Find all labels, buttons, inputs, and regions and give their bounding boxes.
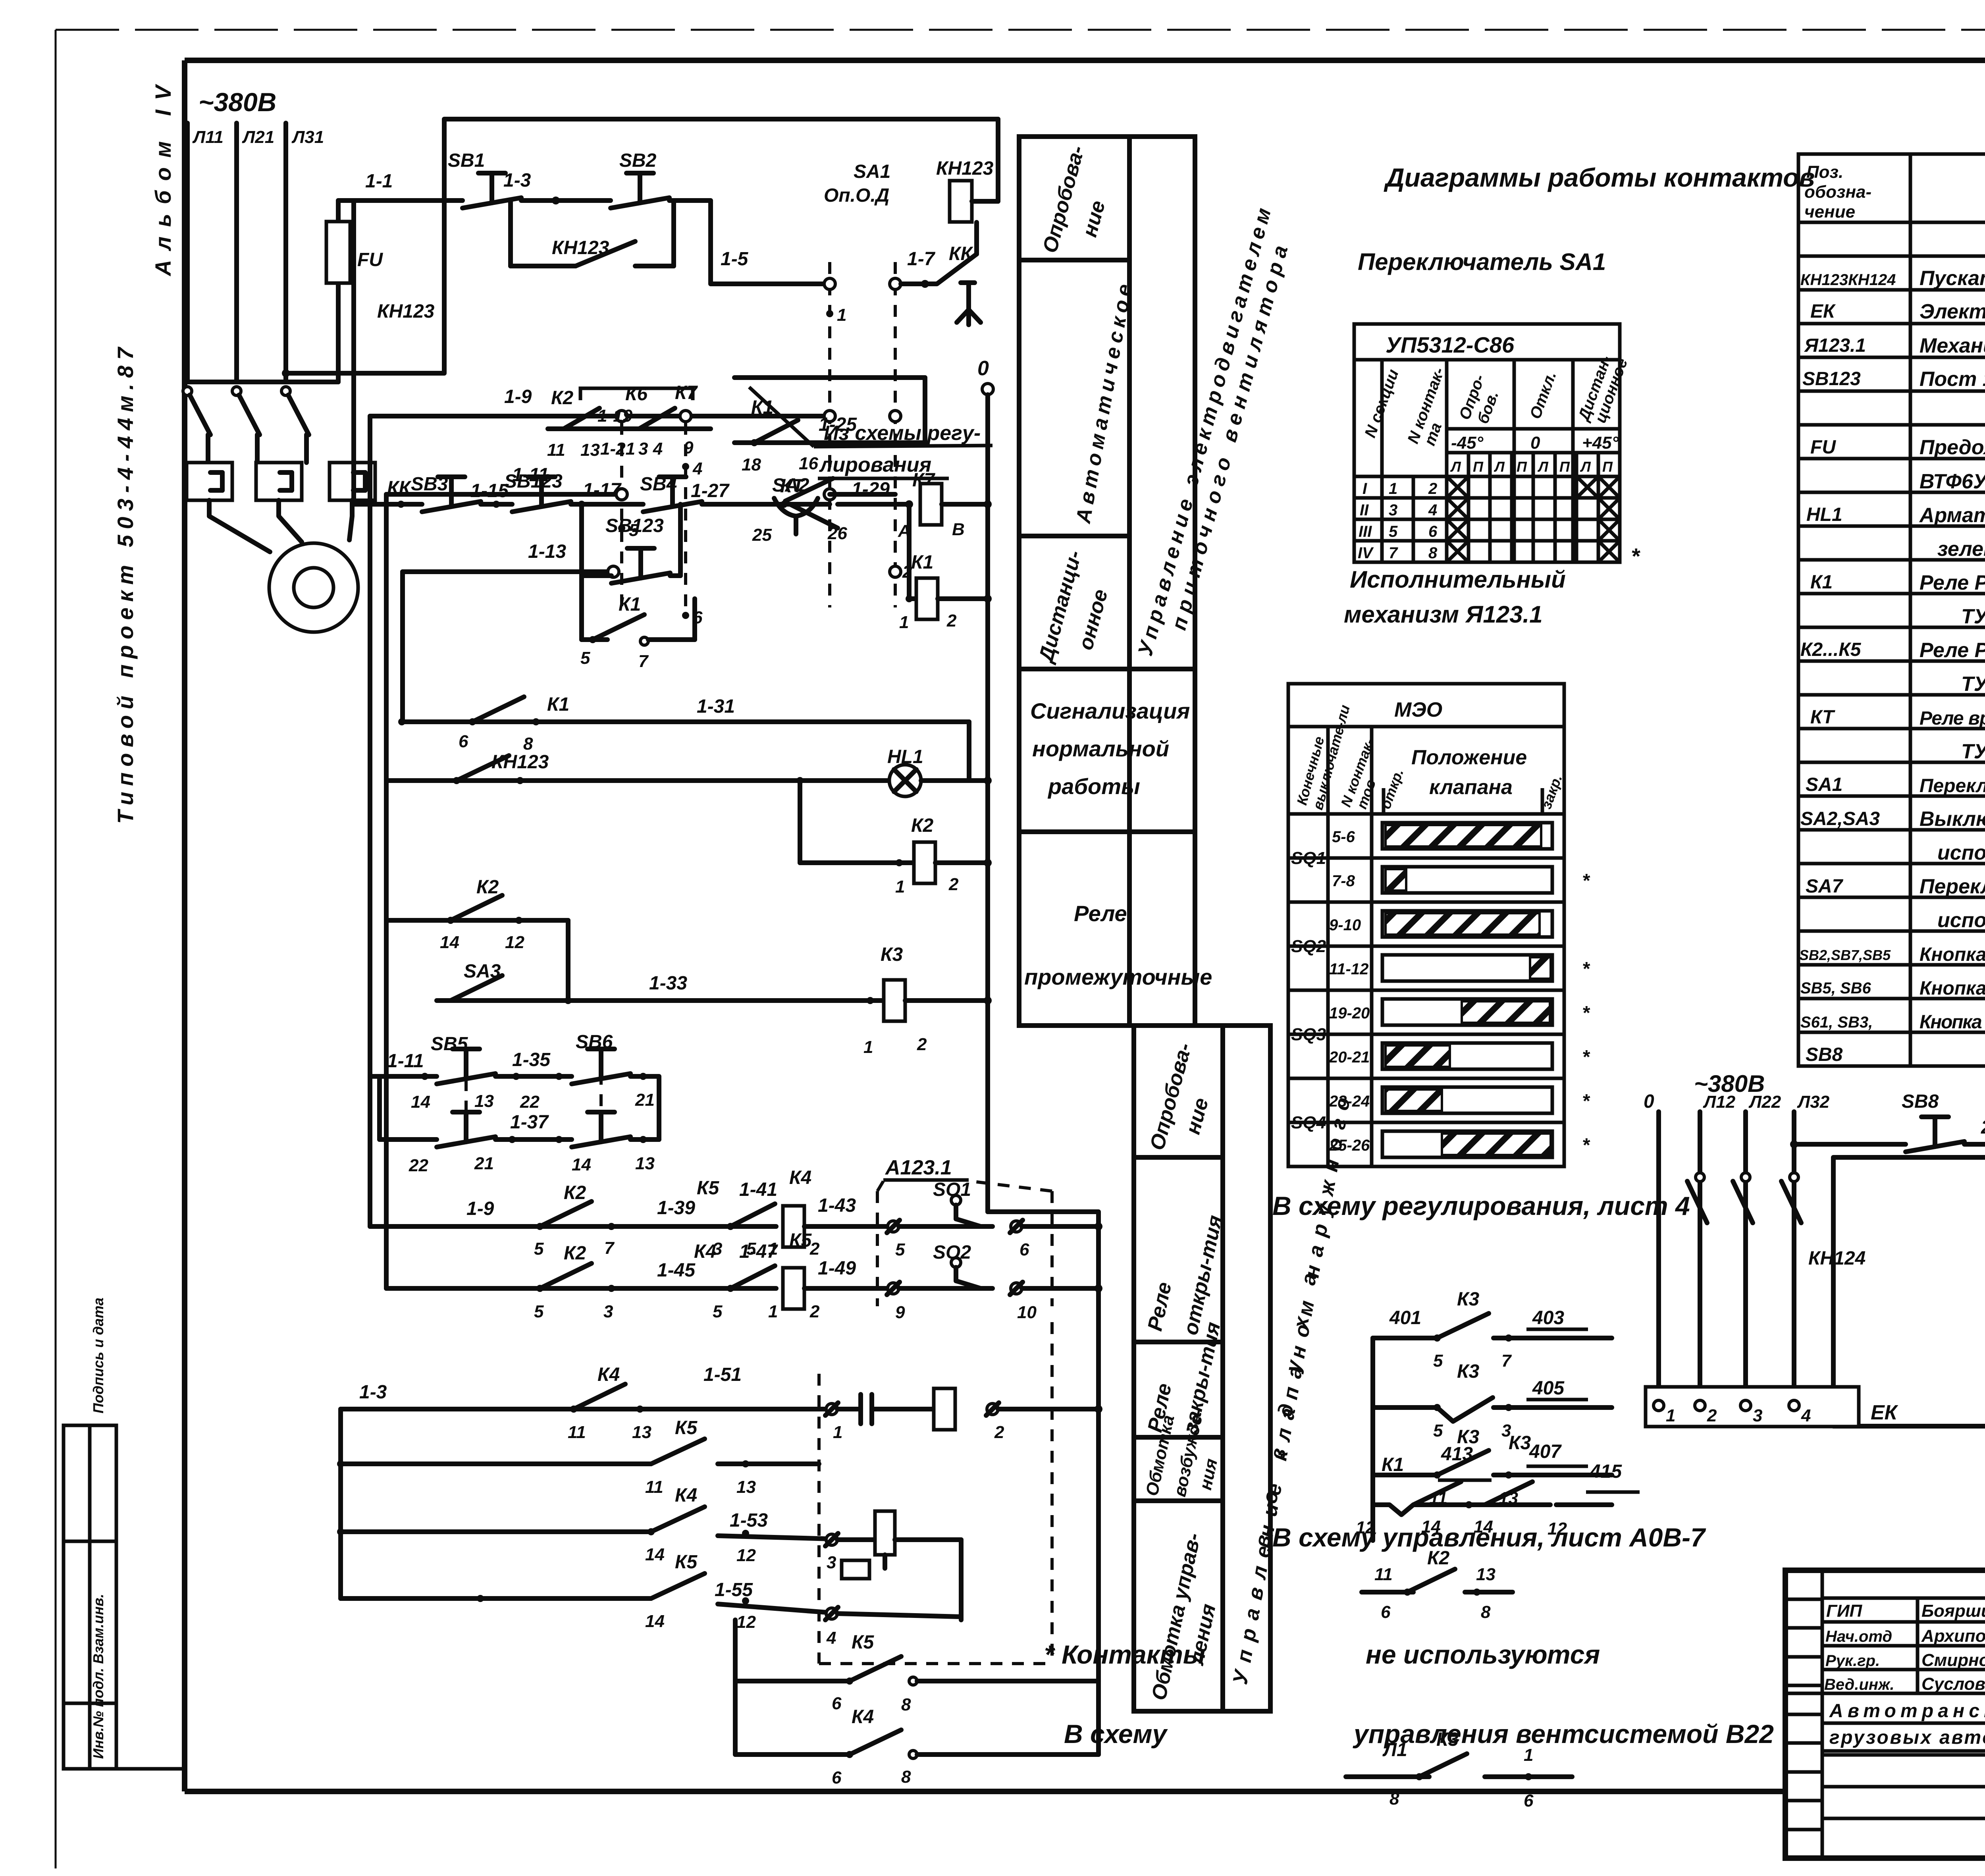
heater phase L12 — [1700, 1092, 1736, 1400]
svg-text:МЭО: МЭО — [1394, 698, 1442, 721]
svg-text:*: * — [1582, 958, 1590, 979]
svg-text:5-6: 5-6 — [1332, 828, 1355, 846]
svg-text:1: 1 — [1666, 1406, 1675, 1425]
upper function column boxes — [1019, 137, 1195, 1026]
rung K5 (11-13) — [341, 1417, 819, 1497]
actuator boundary A123.1 — [877, 1156, 1052, 1306]
rung 1-11 — [386, 465, 895, 540]
svg-text:ЕК: ЕК — [1871, 1401, 1898, 1424]
rung K1 (6-8) wire 1-31 — [398, 694, 969, 781]
svg-text:14: 14 — [645, 1545, 665, 1564]
svg-text:1-17: 1-17 — [583, 480, 622, 501]
svg-text:22: 22 — [409, 1156, 428, 1175]
svg-text:1-45: 1-45 — [657, 1260, 696, 1281]
svg-text:К4: К4 — [694, 1241, 716, 1262]
svg-text:ЕК: ЕК — [1810, 301, 1836, 322]
svg-text:26: 26 — [827, 524, 847, 543]
svg-text:Исполнительный: Исполнительный — [1350, 566, 1566, 593]
note: from regulation circuit — [749, 387, 992, 478]
svg-text:7-8: 7-8 — [1332, 872, 1355, 890]
svg-text:Л: Л — [1450, 459, 1461, 475]
svg-text:22: 22 — [520, 1092, 540, 1112]
actuator MEO table — [1288, 684, 1565, 1166]
svg-text:2: 2 — [1707, 1406, 1717, 1425]
svg-text:онное: онное — [1074, 587, 1112, 652]
svg-text:Опробова-: Опробова- — [1146, 1041, 1197, 1153]
svg-text:4: 4 — [1428, 501, 1437, 519]
contactor KN123 main contacts — [183, 301, 435, 463]
svg-text:К2: К2 — [564, 1182, 586, 1203]
phase line L11 — [187, 123, 224, 382]
title block — [1785, 1570, 1985, 1858]
component table rows — [1798, 256, 1985, 1032]
svg-text:1: 1 — [1389, 480, 1397, 497]
heater EK — [1646, 1387, 1898, 1427]
svg-text:2: 2 — [994, 1423, 1004, 1442]
svg-text:Я123.1: Я123.1 — [1804, 335, 1866, 356]
svg-text:чение: чение — [1804, 202, 1855, 222]
svg-text:6: 6 — [1428, 523, 1438, 540]
svg-text:8: 8 — [1481, 1602, 1491, 1622]
heater panel boundary — [1833, 1157, 1985, 1426]
svg-text:SВ8: SВ8 — [1806, 1044, 1843, 1065]
svg-text:1: 1 — [837, 305, 846, 325]
svg-text:0: 0 — [977, 357, 989, 380]
title block middle and right columns — [1822, 1693, 1985, 1858]
svg-text:SB8: SB8 — [1902, 1091, 1939, 1112]
svg-text:13: 13 — [736, 1477, 756, 1497]
switch SA1 state table — [1354, 324, 1640, 569]
thermal relay KK heaters — [187, 463, 412, 500]
svg-text:работы: работы — [1047, 774, 1140, 799]
svg-text:КН123: КН123 — [377, 301, 435, 322]
svg-text:SB4: SB4 — [640, 474, 677, 495]
link phases to fuse leg — [187, 380, 338, 384]
svg-text:18: 18 — [742, 455, 761, 474]
svg-text:К5: К5 — [675, 1417, 698, 1438]
svg-text:Л1: Л1 — [1382, 1739, 1407, 1760]
svg-text:23-24: 23-24 — [1329, 1093, 1370, 1110]
svg-text:21: 21 — [474, 1154, 494, 1173]
svg-text:3: 3 — [1753, 1406, 1762, 1425]
svg-text:6: 6 — [832, 1768, 842, 1787]
svg-text:Поз.: Поз. — [1806, 162, 1843, 182]
svg-text:К3: К3 — [881, 944, 903, 965]
svg-text:11: 11 — [568, 1423, 586, 1442]
svg-text:обозна-: обозна- — [1804, 182, 1871, 202]
svg-text:Положение: Положение — [1411, 746, 1527, 769]
svg-text:Л11: Л11 — [192, 127, 224, 147]
svg-text:14: 14 — [572, 1155, 591, 1174]
box label Rele promezhutochnye — [1024, 901, 1212, 989]
svg-text:Л: Л — [1537, 459, 1549, 475]
svg-text:К2: К2 — [476, 877, 499, 898]
svg-text:7: 7 — [638, 652, 649, 671]
svg-text:-45°: -45° — [1451, 433, 1484, 453]
svg-text:Откл.: Откл. — [1526, 369, 1560, 422]
svg-text:9: 9 — [895, 1303, 905, 1322]
svg-text:9: 9 — [684, 438, 694, 457]
svg-text:Механизм исполнительный МЭО: Механизм исполнительный МЭО — [1919, 334, 1985, 357]
svg-text:2: 2 — [946, 611, 957, 630]
svg-text:10: 10 — [1017, 1303, 1037, 1322]
svg-text:ТУ16-523,331-78: ТУ16-523,331-78 — [1961, 673, 1985, 696]
rung 1-33 with coil K3 — [568, 944, 992, 1057]
svg-text:2: 2 — [1428, 480, 1437, 497]
svg-text:5: 5 — [534, 1239, 544, 1259]
svg-text:К5: К5 — [675, 1552, 698, 1573]
svg-text:1: 1 — [895, 877, 905, 897]
component table texts — [1799, 233, 1985, 1067]
svg-text:SB3: SB3 — [411, 474, 448, 495]
svg-text:415: 415 — [1590, 1461, 1622, 1482]
svg-text:*: * — [1582, 1135, 1590, 1156]
svg-text:К3: К3 — [1457, 1289, 1480, 1310]
svg-text:Управление электродвигателем: Управление электродвигателем — [1134, 206, 1276, 658]
svg-text:1-3: 1-3 — [359, 1382, 387, 1403]
svg-text:Автотранспортное предприятие н: Автотранспортное предприятие на 150 — [1829, 1701, 1985, 1722]
margin small rotated notes — [90, 1298, 106, 1759]
svg-text:Бояршинов: Бояршинов — [1921, 1601, 1985, 1621]
svg-text:К2: К2 — [1427, 1548, 1450, 1569]
svg-text:КнопкаКЕ011УЗ, испол.4, ТУ16-5: КнопкаКЕ011УЗ, испол.4, ТУ16-526.407-79 — [1919, 944, 1985, 965]
contact K1 with 1-25 and SA2 — [734, 378, 925, 501]
svg-text:1-15: 1-15 — [470, 480, 509, 501]
svg-text:1-31: 1-31 — [697, 696, 735, 717]
pushbutton SB5-SB6 second row — [380, 1051, 659, 1175]
svg-text:7: 7 — [604, 1238, 615, 1258]
svg-text:Переключатель SА1: Переключатель SА1 — [1358, 249, 1606, 275]
svg-text:К5: К5 — [852, 1632, 875, 1653]
svg-text:*: * — [1582, 870, 1590, 891]
K2 contact fragment 11-13 — [1362, 1548, 1513, 1622]
svg-text:6: 6 — [1019, 1240, 1029, 1259]
svg-text:1: 1 — [768, 1302, 778, 1321]
svg-text:ния: ния — [1196, 1457, 1221, 1492]
node 1-7 — [901, 249, 936, 288]
svg-text:Из схемы регу-: Из схемы регу- — [824, 422, 981, 445]
svg-text:Кнопка КЕ011УЗ, испол.5, толка: Кнопка КЕ011УЗ, испол.5, толкатель красн… — [1919, 1012, 1985, 1033]
svg-text:SВ5, SВ6: SВ5, SВ6 — [1800, 979, 1871, 997]
svg-text:SQ2: SQ2 — [1291, 937, 1326, 956]
rung 1-9 — [370, 386, 901, 607]
svg-text:5: 5 — [1389, 523, 1398, 540]
svg-text:А123.1: А123.1 — [885, 1156, 952, 1179]
svg-text:К3: К3 — [1436, 1729, 1459, 1750]
svg-text:1-27: 1-27 — [691, 480, 730, 501]
rung 1-13 — [403, 541, 901, 627]
svg-text:ГИП: ГИП — [1826, 1601, 1863, 1621]
svg-text:S61, SВ3,: S61, SВ3, — [1800, 1014, 1873, 1031]
coil KN123 — [936, 119, 998, 254]
svg-text:I: I — [1363, 480, 1367, 497]
pushbutton SB2 — [611, 150, 669, 208]
svg-text:25: 25 — [752, 525, 772, 545]
svg-text:грузовых автомобилей для север: грузовых автомобилей для северных районо… — [1829, 1727, 1985, 1748]
svg-text:Кнопка КЕ011УЗ, испол.2, ТУ16-: Кнопка КЕ011УЗ, испол.2, ТУ16-526.407-79 — [1919, 978, 1985, 999]
svg-text:1-3: 1-3 — [503, 170, 531, 191]
svg-text:19-20: 19-20 — [1329, 1005, 1370, 1022]
svg-text:401: 401 — [1389, 1307, 1421, 1328]
svg-text:III: III — [1359, 523, 1372, 540]
pushbutton SB8 — [1902, 1091, 1985, 1152]
svg-text:испол.I , ОСТ16,0526.001-77: испол.I , ОСТ16,0526.001-77 — [1937, 909, 1985, 932]
fuse FU — [326, 201, 383, 382]
lamp HL1 — [887, 746, 992, 796]
svg-text:1-7: 1-7 — [907, 249, 936, 270]
svg-text:SА1: SА1 — [1806, 774, 1842, 795]
svg-text:0: 0 — [1530, 433, 1540, 453]
svg-text:Арматура светосигнальная АСЛ11: Арматура светосигнальная АСЛ11У2, — [1919, 504, 1985, 527]
svg-text:0: 0 — [1644, 1091, 1654, 1112]
svg-text:SB2: SB2 — [619, 150, 657, 171]
svg-text:SQ1: SQ1 — [1291, 848, 1326, 868]
svg-text:Инв.№ подл. Взам.инв.: Инв.№ подл. Взам.инв. — [90, 1594, 106, 1759]
svg-text:откры-тия: откры-тия — [1179, 1213, 1227, 1337]
svg-text:Л22: Л22 — [1748, 1092, 1781, 1112]
contact K1 (5-7) — [580, 576, 695, 671]
rung 1-9 K2 1-39 K5 K4coil SQ1 — [370, 1178, 778, 1259]
svg-text:FU: FU — [357, 249, 383, 270]
heater phase L22 — [1746, 1092, 1781, 1400]
svg-text:К1: К1 — [911, 552, 933, 573]
svg-text:нормальной: нормальной — [1032, 736, 1169, 761]
long rung SB3 SB123 SB4 KT K7 — [354, 471, 788, 512]
svg-text:ТУ16-523,331-78: ТУ16-523,331-78 — [1961, 605, 1985, 628]
svg-text:* Контакты: * Контакты — [1044, 1640, 1205, 1669]
svg-text:1-13: 1-13 — [528, 541, 566, 562]
svg-text:КН123: КН123 — [936, 158, 994, 179]
coil K1 — [899, 504, 992, 632]
svg-text:6: 6 — [459, 732, 468, 751]
rung 1-3 K4 1-51 capacitor coil — [341, 1364, 1102, 1442]
svg-text:промежуточные: промежуточные — [1024, 964, 1212, 989]
svg-text:К1: К1 — [1382, 1454, 1404, 1475]
svg-text:8: 8 — [1428, 544, 1438, 562]
heater phase L32 — [1794, 1092, 1830, 1400]
svg-text:11-12: 11-12 — [1329, 960, 1368, 978]
svg-text:Реле РПУ2-362223 УЗ, ~220В, 50: Реле РПУ2-362223 УЗ, ~220В, 50Гц, — [1919, 571, 1985, 594]
svg-text:3: 3 — [603, 1302, 613, 1321]
svg-text:5: 5 — [534, 1302, 544, 1321]
svg-text:Архипов: Архипов — [1921, 1626, 1985, 1646]
svg-text:1-47: 1-47 — [739, 1241, 778, 1262]
svg-text:К5: К5 — [789, 1230, 812, 1251]
switch SA1 section (Op.0.D) — [824, 161, 912, 607]
coil K4 — [783, 1167, 893, 1259]
svg-text:Реле: Реле — [1074, 901, 1127, 926]
pushbutton SB5 row — [370, 1032, 659, 1139]
svg-text:IV: IV — [1358, 544, 1374, 562]
contact K5 (6-8) — [735, 1620, 1098, 1755]
svg-text:П: П — [1517, 459, 1527, 475]
svg-text:SB6: SB6 — [576, 1032, 613, 1053]
svg-text:В схему регулирования, лист 4: В схему регулирования, лист 4 — [1272, 1191, 1690, 1220]
svg-text:SB1: SB1 — [448, 150, 485, 171]
svg-text:405: 405 — [1532, 1378, 1565, 1399]
svg-text:4: 4 — [1801, 1406, 1811, 1425]
svg-text:К1: К1 — [1810, 572, 1833, 593]
svg-text:2: 2 — [948, 875, 959, 894]
motor M — [269, 543, 358, 632]
left bus wires — [354, 201, 403, 1288]
svg-text:В схему управления, лист А0В: В схему управления, лист А0В-7 — [1272, 1523, 1706, 1552]
svg-text:13: 13 — [632, 1423, 651, 1442]
right bus 0 — [977, 357, 1098, 1755]
svg-text:5: 5 — [713, 1302, 723, 1321]
svg-text:*: * — [1582, 1003, 1590, 1024]
svg-text:Пост 1/2", ПКЕ712-2УЗ, ТУ16-52: Пост 1/2", ПКЕ712-2УЗ, ТУ16-526.216-78 — [1919, 368, 1985, 391]
svg-text:Управление клапаном наружного: Управление клапаном наружного — [1229, 1096, 1355, 1686]
svg-text:1-21: 1-21 — [600, 439, 635, 459]
svg-text:Реле РПУ2-362023 УЗ,~220В, 50Г: Реле РПУ2-362023 УЗ,~220В, 50Гц — [1919, 639, 1985, 662]
svg-text:1-39: 1-39 — [657, 1197, 695, 1219]
svg-text:1-1: 1-1 — [365, 171, 393, 192]
svg-text:КН124: КН124 — [1808, 1248, 1866, 1269]
tap from L31 to control circuit — [282, 119, 998, 377]
rung KN123 with lamp HL1 — [386, 752, 890, 784]
svg-text:403: 403 — [1532, 1307, 1564, 1328]
svg-text:SА7: SА7 — [1806, 876, 1844, 897]
svg-text:5: 5 — [580, 648, 590, 668]
svg-text:12: 12 — [736, 1546, 756, 1565]
svg-text:1-41: 1-41 — [739, 1179, 777, 1200]
svg-text:Реле: Реле — [1143, 1280, 1176, 1333]
actuator boundary lower dashed box — [819, 1322, 1052, 1664]
contact K4 (6-8) — [735, 1706, 1098, 1787]
svg-text:Диаграммы работы контактов: Диаграммы работы контактов — [1384, 163, 1815, 192]
svg-text:8: 8 — [1389, 1789, 1399, 1809]
svg-text:Суслов: Суслов — [1921, 1674, 1985, 1694]
svg-text:7: 7 — [1501, 1351, 1512, 1371]
svg-text:5: 5 — [1433, 1421, 1443, 1440]
svg-text:Автоматическое: Автоматическое — [1072, 282, 1136, 526]
svg-text:Л12: Л12 — [1703, 1092, 1736, 1112]
svg-text:4: 4 — [692, 459, 702, 478]
svg-text:ТУ16-523,472-79: ТУ16-523,472-79 — [1961, 740, 1985, 763]
K1 413 K3 415 rung — [1356, 1433, 1640, 1539]
svg-text:11: 11 — [645, 1477, 663, 1497]
svg-text:21: 21 — [635, 1090, 655, 1110]
svg-text:П: П — [1602, 459, 1613, 475]
title block signature rows — [1785, 1570, 1985, 1728]
svg-text:*: * — [1631, 544, 1640, 569]
holding contact KN123 — [511, 201, 674, 266]
svg-text:Л31: Л31 — [291, 127, 324, 147]
svg-text:1: 1 — [1524, 1745, 1533, 1765]
rung K4 (14-12) and 1-53 — [341, 1485, 961, 1620]
svg-text:Вед.инж.: Вед.инж. — [1824, 1676, 1894, 1693]
svg-text:УП5312-С86: УП5312-С86 — [1386, 332, 1515, 357]
svg-text:1: 1 — [833, 1423, 842, 1442]
svg-text:Предохранитель ПТ-10 с плавкой: Предохранитель ПТ-10 с плавкой вставкой — [1919, 436, 1985, 459]
svg-text:5: 5 — [1433, 1351, 1443, 1371]
svg-text:К1: К1 — [547, 694, 569, 715]
svg-text:11: 11 — [547, 440, 565, 460]
svg-text:Смирнова: Смирнова — [1921, 1650, 1985, 1670]
svg-text:20-21: 20-21 — [1329, 1049, 1370, 1066]
svg-text:К3: К3 — [1457, 1361, 1480, 1382]
svg-text:КТ: КТ — [780, 476, 805, 497]
svg-text:К2: К2 — [564, 1243, 586, 1264]
svg-text:К7: К7 — [675, 382, 698, 403]
svg-text:ние: ние — [1078, 198, 1110, 239]
svg-text:Оп.О.Д: Оп.О.Д — [824, 185, 889, 206]
svg-text:8: 8 — [523, 734, 533, 754]
svg-text:К4: К4 — [675, 1485, 697, 1506]
svg-text:1-19: 1-19 — [597, 406, 633, 426]
branch to heater control — [1790, 1140, 1906, 1148]
svg-text:2: 2 — [809, 1302, 820, 1321]
limit switch SQ1 — [887, 1179, 1102, 1259]
contact block K2 K6 K7 — [547, 382, 711, 460]
svg-text:14: 14 — [440, 933, 459, 952]
svg-text:13: 13 — [1476, 1565, 1495, 1584]
svg-text:13: 13 — [635, 1154, 655, 1173]
svg-text:Опробова-: Опробова- — [1039, 143, 1089, 255]
svg-text:Нач.отд: Нач.отд — [1825, 1628, 1892, 1645]
svg-text:испол.I , ОСТ16,0526,001-77: испол.I , ОСТ16,0526,001-77 — [1937, 841, 1985, 864]
svg-text:Дистанци-: Дистанци- — [1034, 548, 1086, 666]
svg-text:7: 7 — [1389, 544, 1398, 562]
svg-text:Л21: Л21 — [242, 127, 274, 147]
svg-text:5: 5 — [895, 1240, 905, 1259]
phase line L21 — [237, 123, 274, 382]
svg-text:КТ: КТ — [1810, 707, 1835, 728]
svg-text:3 4: 3 4 — [638, 439, 663, 459]
svg-text:*: * — [1582, 1091, 1590, 1112]
coil K2 — [796, 777, 992, 897]
svg-text:1-43: 1-43 — [818, 1195, 856, 1216]
svg-text:16: 16 — [799, 454, 818, 473]
svg-text:6: 6 — [1524, 1791, 1534, 1810]
bottom left bus — [337, 1409, 344, 1598]
K3 contact rung 405 — [1373, 1361, 1612, 1440]
svg-text:1-55: 1-55 — [715, 1579, 753, 1600]
svg-text:К2: К2 — [551, 388, 574, 409]
svg-text:12: 12 — [736, 1612, 756, 1632]
svg-text:П: П — [1473, 459, 1484, 475]
svg-text:клапана: клапана — [1429, 776, 1513, 799]
svg-text:1-11: 1-11 — [387, 1051, 424, 1072]
svg-text:1-9: 1-9 — [466, 1198, 494, 1219]
svg-text:1-53: 1-53 — [730, 1510, 768, 1531]
svg-text:12: 12 — [505, 933, 524, 952]
svg-text:413: 413 — [1441, 1444, 1473, 1465]
box label Signalizatsiya — [1030, 698, 1190, 799]
svg-text:13: 13 — [474, 1091, 494, 1111]
svg-text:8: 8 — [901, 1695, 911, 1714]
svg-text:управления вентсистемой В22: управления вентсистемой В22 — [1353, 1719, 1774, 1749]
svg-text:1-33: 1-33 — [649, 973, 687, 994]
phase line L31 — [286, 123, 324, 382]
svg-text:В: В — [952, 520, 965, 539]
svg-text:2: 2 — [917, 1035, 927, 1054]
svg-text:~380В: ~380В — [198, 87, 276, 117]
svg-text:9-10: 9-10 — [1329, 916, 1361, 934]
svg-text:SQ3: SQ3 — [1291, 1025, 1326, 1044]
component list table — [1798, 154, 1985, 1066]
svg-text:К3: К3 — [1509, 1433, 1531, 1454]
svg-text:К2: К2 — [911, 815, 934, 836]
svg-text:1-9: 1-9 — [504, 386, 532, 407]
svg-text:В схему: В схему — [1064, 1719, 1168, 1749]
row1 wire 1-1 — [338, 171, 463, 201]
svg-text:Типовой проект 503-4-44м.87: Типовой проект 503-4-44м.87 — [113, 346, 138, 824]
svg-text:1-5: 1-5 — [721, 249, 749, 270]
svg-text:+45°: +45° — [1582, 433, 1619, 453]
svg-text:SQ4: SQ4 — [1291, 1113, 1326, 1132]
